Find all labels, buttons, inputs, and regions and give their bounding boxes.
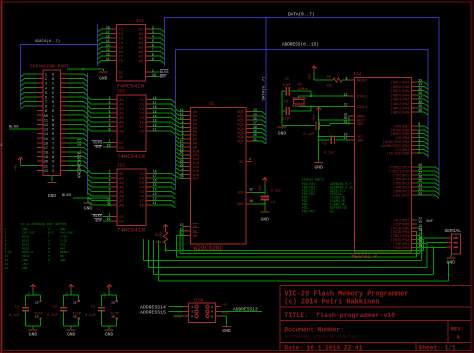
svg-text:1: 1 [45,74,47,78]
svg-text:+5V: +5V [22,263,28,266]
svg-text:NC: NC [330,209,334,213]
svg-text:Y8: Y8 [119,60,124,64]
svg-text:Y8: Y8 [139,204,144,208]
svg-text:C5: C5 [285,78,289,82]
svg-text:C8: C8 [322,142,326,146]
svg-text:GND: GND [67,331,76,337]
svg-text:C7: C7 [303,125,307,129]
svg-text:P: P [52,129,54,133]
svg-text:C2: C2 [53,306,57,310]
svg-text:Y7: Y7 [139,126,144,130]
svg-text:Y6: Y6 [139,122,144,126]
svg-text:Y2: Y2 [139,177,144,181]
svg-text:Q1: Q1 [298,83,302,87]
svg-text:A8: A8 [119,131,124,135]
svg-text:A1: A1 [119,99,124,103]
svg-text:ADDRESS13: ADDRESS13 [233,306,258,312]
svg-text:17: 17 [44,147,48,151]
svg-text:Document Number:: Document Number: [284,327,343,334]
svg-text:GND: GND [357,139,363,143]
svg-text:ICSP: ICSP [193,300,204,304]
svg-text:5: 5 [45,92,47,96]
svg-text:Date: 16.1.2014 22:41: Date: 16.1.2014 22:41 [284,344,362,351]
svg-text:(ADC3)PA3: (ADC3)PA3 [391,98,409,103]
svg-text:0.1uF: 0.1uF [9,314,20,318]
svg-text:Y: Y [48,255,50,258]
svg-text:F: F [52,96,54,100]
svg-text:VADDRESS(0..12): VADDRESS(0..12) [78,138,83,178]
svg-text:BUF: BUF [427,220,433,224]
svg-text:GND: GND [237,203,243,207]
svg-text:GND: GND [315,164,324,170]
svg-text:C4: C4 [271,202,275,206]
svg-text:GND: GND [60,259,66,262]
svg-text:(ADC0)PA0: (ADC0)PA0 [391,111,409,116]
svg-text:9: 9 [45,110,47,114]
svg-text:VIC-20 Flash Memory Programmer: VIC-20 Flash Memory Programmer [284,291,408,299]
svg-text:B-S: B-S [48,232,54,235]
svg-text:GND: GND [357,123,363,127]
svg-text:RESET: RESET [60,251,69,254]
svg-text:V: V [48,243,50,246]
svg-text:20: 20 [73,302,77,305]
svg-text:N: N [52,124,54,128]
svg-text:10: 10 [44,115,48,119]
svg-text:I/O2: I/O2 [60,239,67,243]
svg-text:T: T [48,236,50,239]
svg-text:(T0/XCK)PB0: (T0/XCK)PB0 [387,152,409,157]
svg-text:Y6: Y6 [139,195,144,199]
svg-text:Y4: Y4 [139,113,144,117]
svg-text:A5: A5 [139,47,144,51]
svg-text:+5V: +5V [259,184,263,191]
svg-text:G2: G2 [119,147,124,151]
svg-text:A1: A1 [119,173,124,177]
svg-text:G1: G1 [119,142,124,146]
svg-text:A3: A3 [139,38,144,42]
svg-text:R: R [52,133,54,137]
svg-text:74HC541N: 74HC541N [117,153,145,160]
svg-text:U1: U1 [209,102,215,107]
svg-text:S02: S02 [60,243,66,246]
svg-text:ADDRESS15: ADDRESS15 [140,309,166,315]
svg-text:E: E [52,92,54,96]
svg-text:Y8: Y8 [139,131,144,135]
svg-text:20: 20 [35,302,39,305]
svg-text:14: 14 [44,133,48,137]
svg-text:H: H [52,101,54,105]
svg-text:(c) 2014 Petri Häkkinen: (c) 2014 Petri Häkkinen [284,299,379,307]
svg-text:+5V: +5V [15,164,19,171]
svg-text:A2: A2 [139,33,144,37]
svg-text:NC: NC [239,161,243,165]
svg-text:(ADC7)PA7: (ADC7)PA7 [391,81,409,86]
svg-text:19: 19 [44,156,48,160]
svg-text:+5V: +5V [313,114,317,121]
svg-text:T: T [52,142,54,146]
svg-text:G2: G2 [119,76,124,80]
svg-text:SERIAL: SERIAL [445,228,462,234]
svg-text:IC2P: IC2P [72,312,81,316]
svg-text:G2: G2 [119,220,124,224]
svg-text:A8: A8 [119,204,124,208]
svg-text:G1: G1 [119,72,124,76]
svg-text:DATA(0..7): DATA(0..7) [288,13,314,18]
svg-text:VDATA(0..7): VDATA(0..7) [35,39,60,44]
svg-text:A4: A4 [119,186,124,190]
svg-text:W: W [48,247,50,250]
svg-text:U: U [48,240,50,243]
svg-text:BLK3: BLK3 [22,243,29,246]
svg-text:MEGA32-P: MEGA32-P [351,254,377,260]
svg-text:L: L [52,115,54,119]
svg-text:4: 4 [45,87,47,91]
svg-text:B: B [52,78,54,82]
svg-text:C6: C6 [284,101,288,105]
svg-text:A17: A17 [193,178,199,182]
svg-text:7-16: 7-16 [5,251,12,254]
svg-text:(ADC5)PA5: (ADC5)PA5 [391,89,409,94]
svg-text:D: D [52,87,54,91]
svg-text:GND: GND [99,76,108,82]
svg-text:G1: G1 [119,216,124,220]
svg-text:S: S [52,138,54,142]
svg-text:BUF: BUF [160,75,166,79]
svg-text:(ADC4)PA4: (ADC4)PA4 [391,93,409,98]
svg-text:C1: C1 [15,306,19,310]
svg-text:GND: GND [447,260,456,266]
svg-text:2: 2 [45,78,47,82]
svg-text:13: 13 [44,129,48,133]
svg-text:Y2: Y2 [139,104,144,108]
svg-text:A: A [48,228,50,231]
svg-text:DATA(0..7): DATA(0..7) [261,76,266,100]
svg-text:W29C020C: W29C020C [194,245,224,252]
svg-text:(ADC6)PA6: (ADC6)PA6 [391,85,409,90]
svg-text:19: 19 [5,263,9,266]
svg-text:C: C [52,83,54,87]
svg-text:15: 15 [44,138,48,142]
svg-text:GND: GND [22,228,28,231]
svg-text:REV:: REV: [451,326,464,333]
svg-text:A6: A6 [119,195,124,199]
svg-text:0.1uF: 0.1uF [303,133,314,137]
svg-text:20: 20 [44,161,48,165]
svg-text:IC1: IC1 [136,19,144,24]
svg-text:Sheet: 1/1: Sheet: 1/1 [419,344,456,351]
svg-text:GND: GND [278,130,287,136]
svg-text:A4: A4 [119,113,124,117]
svg-text:A6: A6 [119,122,124,126]
svg-text:ADDRESS(0..15): ADDRESS(0..15) [282,42,319,47]
svg-text:X: X [48,251,50,254]
svg-text:8: 8 [45,106,47,110]
svg-text:A3: A3 [119,182,124,186]
svg-text:Y5: Y5 [139,117,144,121]
svg-text:IC2: IC2 [117,90,125,95]
svg-text:+5V: +5V [160,231,164,238]
svg-text:11: 11 [44,119,48,123]
svg-text:GND: GND [60,228,66,231]
svg-text:J: J [52,106,54,110]
svg-text:6: 6 [45,96,47,100]
svg-text:7: 7 [45,101,47,105]
svg-text:5: 5 [5,243,7,246]
svg-text:GND: GND [261,217,270,223]
svg-text:A5: A5 [119,117,124,121]
svg-text:+5V: +5V [222,303,228,306]
svg-text:NC: NC [60,255,64,258]
svg-text:22: 22 [180,223,184,227]
svg-text:Y7: Y7 [119,56,124,60]
svg-text:A3: A3 [119,108,124,112]
svg-text:XTAL2: XTAL2 [357,96,368,100]
svg-text:GND: GND [22,267,28,270]
svg-text:20: 20 [5,267,9,270]
svg-text:1: 1 [249,157,251,161]
svg-text:XTAL1: XTAL1 [357,106,368,110]
svg-text:1: 1 [191,306,193,309]
svg-text:A7: A7 [119,200,124,204]
svg-text:20: 20 [111,302,115,305]
svg-text:A2: A2 [119,104,124,108]
svg-text:DQ7: DQ7 [237,140,243,144]
svg-text:Y3: Y3 [119,38,124,42]
svg-text:Y4: Y4 [119,42,124,46]
svg-text:BUF: BUF [96,146,102,150]
svg-text:IC3: IC3 [117,163,125,168]
svg-text:C3: C3 [91,306,95,310]
svg-text:22: 22 [44,170,48,174]
svg-text:1: 1 [5,228,7,231]
svg-text:PD6-PD7: PD6-PD7 [302,209,315,213]
svg-text:petrihakkinen.github.com/vic20: petrihakkinen.github.com/vic20-flash [285,334,358,339]
svg-text:(ADC2)PA2: (ADC2)PA2 [391,102,409,107]
svg-text:Y7: Y7 [139,200,144,204]
svg-text:IC4: IC4 [353,72,361,77]
svg-text:17: 17 [5,255,9,258]
svg-text:X: X [52,161,54,165]
svg-text:3: 3 [45,83,47,87]
svg-text:12: 12 [44,124,48,128]
svg-text:ATMEGA PORTS: ATMEGA PORTS [302,178,324,182]
svg-text:Y5: Y5 [119,47,124,51]
svg-text:Y1: Y1 [119,29,124,33]
svg-text:(RXD)PD0: (RXD)PD0 [393,246,409,251]
svg-text:Y2: Y2 [119,33,124,37]
svg-text:6: 6 [5,247,7,250]
svg-text:10k: 10k [326,83,332,88]
svg-text:Y4: Y4 [139,186,144,190]
svg-text:IC1P: IC1P [34,312,43,316]
svg-text:Z: Z [52,170,54,174]
svg-text:Y6: Y6 [119,51,124,55]
svg-text:Z: Z [48,259,50,262]
svg-text:CA0-CA13: CA0-CA13 [60,232,75,235]
svg-text:A7: A7 [139,56,144,60]
svg-text:32: 32 [249,188,253,192]
svg-text:A6: A6 [139,51,144,55]
svg-text:GND: GND [29,331,38,337]
svg-text:5: 5 [191,315,193,318]
svg-text:BLKS: BLKS [9,125,19,129]
svg-text:74HC541N: 74HC541N [116,82,144,89]
svg-text:2: 2 [5,232,7,235]
svg-text:BLK2: BLK2 [22,240,29,243]
svg-text:4: 4 [211,311,213,314]
svg-text:A7: A7 [119,126,124,130]
svg-text:3: 3 [5,236,7,239]
svg-text:4: 4 [5,240,7,243]
svg-text:GND: GND [48,193,57,199]
svg-text:(ADC1)PA1: (ADC1)PA1 [391,106,409,111]
svg-text:Y3: Y3 [139,182,144,186]
svg-text:A8: A8 [139,60,144,64]
svg-text:Y3: Y3 [139,108,144,112]
svg-text:74HC541N: 74HC541N [117,227,145,234]
svg-text:GND: GND [222,328,231,334]
svg-text:3: 3 [191,311,193,314]
svg-text:BLK1: BLK1 [22,236,29,239]
svg-text:CD0-CGP: CD0-CGP [22,232,35,235]
svg-text:A2: A2 [119,177,124,181]
svg-text:Y1: Y1 [139,99,144,103]
svg-text:(SCL)PC0: (SCL)PC0 [393,194,409,199]
svg-text:BLK5: BLK5 [22,247,29,250]
svg-text:CR/W: CR/W [22,254,29,258]
svg-text:18: 18 [44,152,48,156]
svg-text:RESET: RESET [357,80,369,84]
svg-text:IC3P: IC3P [110,312,119,316]
svg-text:M: M [52,119,54,123]
svg-text:TITLE: flash-programmer-v10: TITLE: flash-programmer-v10 [284,312,395,319]
svg-text:16: 16 [249,199,253,203]
svg-text:WE: WE [193,235,197,239]
svg-text:0.1uF: 0.1uF [324,152,335,156]
svg-text:GND: GND [84,206,93,212]
svg-text:U: U [52,147,54,151]
svg-text:Y5: Y5 [139,191,144,195]
svg-text:A1: A1 [139,29,144,33]
svg-text:R2: R2 [327,76,331,80]
svg-text:GND: GND [105,331,114,337]
svg-text:BLKS: BLKS [62,194,72,198]
svg-text:Y: Y [52,165,54,169]
svg-text:16: 16 [44,142,48,146]
svg-text:R1: R1 [155,234,159,238]
svg-text:18: 18 [5,259,9,262]
svg-text:A7F5-3: A7F5-3 [22,251,33,254]
svg-text:2: 2 [211,306,213,309]
svg-text:0.1uF: 0.1uF [47,314,58,318]
svg-text:22pF: 22pF [282,118,291,122]
svg-text:0.1uF: 0.1uF [271,190,282,194]
svg-text:22pF: 22pF [282,84,291,88]
svg-text:A5: A5 [119,191,124,195]
svg-text:I/O1: I/O1 [60,235,67,239]
svg-text:A4: A4 [139,42,144,46]
svg-text:0.1uF: 0.1uF [85,314,96,318]
svg-text:BUF: BUF [96,220,102,224]
svg-text:6: 6 [211,315,213,318]
svg-text:Y1: Y1 [139,173,144,177]
svg-text:21: 21 [44,165,48,169]
svg-text:VIC-20 CARTRIDGE PORT (BOTTOM): VIC-20 CARTRIDGE PORT (BOTTOM) [20,222,67,226]
svg-text:NMI: NMI [60,247,66,250]
svg-text:VDD: VDD [237,192,243,196]
svg-text:IRQ: IRQ [22,259,28,262]
svg-text:+5V: +5V [309,73,313,80]
svg-text:EXPANSION PORT: EXPANSION PORT [30,63,69,69]
